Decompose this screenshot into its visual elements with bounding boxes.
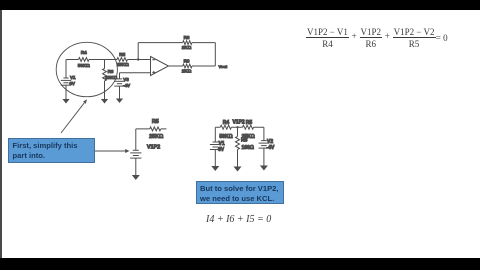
svg-text:2KΩ: 2KΩ: [182, 45, 192, 50]
svg-text:R4: R4: [223, 120, 230, 126]
svg-text:R8: R8: [184, 35, 190, 40]
svg-text:V1P2: V1P2: [232, 120, 244, 126]
svg-text:6V: 6V: [218, 147, 225, 153]
svg-text:50KΩ: 50KΩ: [219, 134, 232, 140]
svg-text:V1P2: V1P2: [147, 145, 160, 151]
svg-text:R8: R8: [184, 59, 190, 64]
svg-text:V2: V2: [267, 139, 273, 145]
svg-text:50KΩ: 50KΩ: [78, 63, 90, 68]
svg-text:25KΩ: 25KΩ: [117, 62, 129, 67]
svg-text:-4V: -4V: [267, 145, 275, 151]
svg-text:V3: V3: [123, 77, 129, 82]
svg-text:R6: R6: [108, 69, 114, 74]
svg-text:2KΩ: 2KΩ: [182, 68, 192, 73]
svg-text:6V: 6V: [69, 81, 76, 86]
svg-text:R5: R5: [152, 119, 159, 125]
svg-text:25KΩ: 25KΩ: [149, 134, 164, 140]
svg-text:R6: R6: [241, 138, 248, 144]
svg-text:-4V: -4V: [123, 83, 131, 88]
svg-text:Vout: Vout: [219, 64, 228, 69]
svg-text:R5: R5: [246, 120, 253, 126]
svg-text:V1: V1: [70, 75, 76, 80]
svg-text:R5: R5: [119, 52, 125, 57]
svg-text:V1: V1: [219, 141, 225, 147]
svg-text:160Ω: 160Ω: [242, 145, 254, 151]
svg-text:R4: R4: [81, 50, 87, 55]
